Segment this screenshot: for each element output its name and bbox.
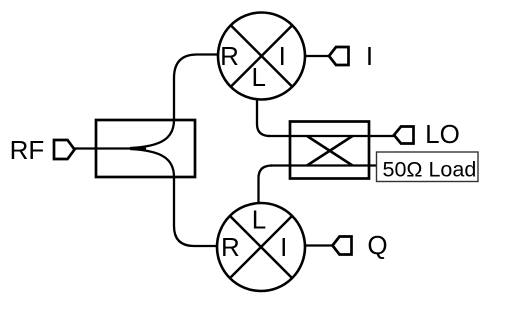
svg-text:I: I [280, 232, 287, 262]
splitter box [96, 120, 195, 177]
mixer bottom circle [217, 203, 305, 291]
hybrid upper through line [268, 135, 394, 137]
hybrid X [307, 136, 353, 166]
port Q [333, 237, 352, 255]
svg-text:R: R [221, 232, 240, 262]
svg-text:Q: Q [367, 230, 387, 260]
mixer top circle [218, 13, 305, 100]
wire bottom mixer to Q port [305, 244, 333, 246]
hybrid lower through line [270, 164, 377, 166]
svg-text:RF: RF [10, 135, 45, 165]
wire fork upper branch to top mixer [130, 55, 218, 149]
mixer bottom X [230, 216, 292, 278]
wire fork lower branch to bottom mixer [130, 149, 218, 246]
wire top mixer L to hybrid [257, 100, 270, 137]
svg-text:50Ω Load: 50Ω Load [383, 158, 477, 182]
port I [329, 47, 349, 65]
wire hybrid to bottom mixer L [259, 166, 273, 204]
port RF [54, 140, 75, 159]
svg-text:I: I [366, 41, 373, 71]
svg-text:L: L [251, 62, 265, 92]
load box [377, 152, 479, 182]
hybrid crossover box [290, 122, 369, 179]
svg-text:R: R [220, 41, 239, 71]
mixer top X [231, 25, 293, 87]
wire top mixer to I port [305, 55, 329, 57]
svg-text:I: I [279, 41, 286, 71]
svg-text:L: L [252, 205, 266, 235]
wire RF to splitter fork [75, 147, 147, 149]
port LO [394, 127, 414, 144]
svg-text:LO: LO [425, 119, 460, 149]
